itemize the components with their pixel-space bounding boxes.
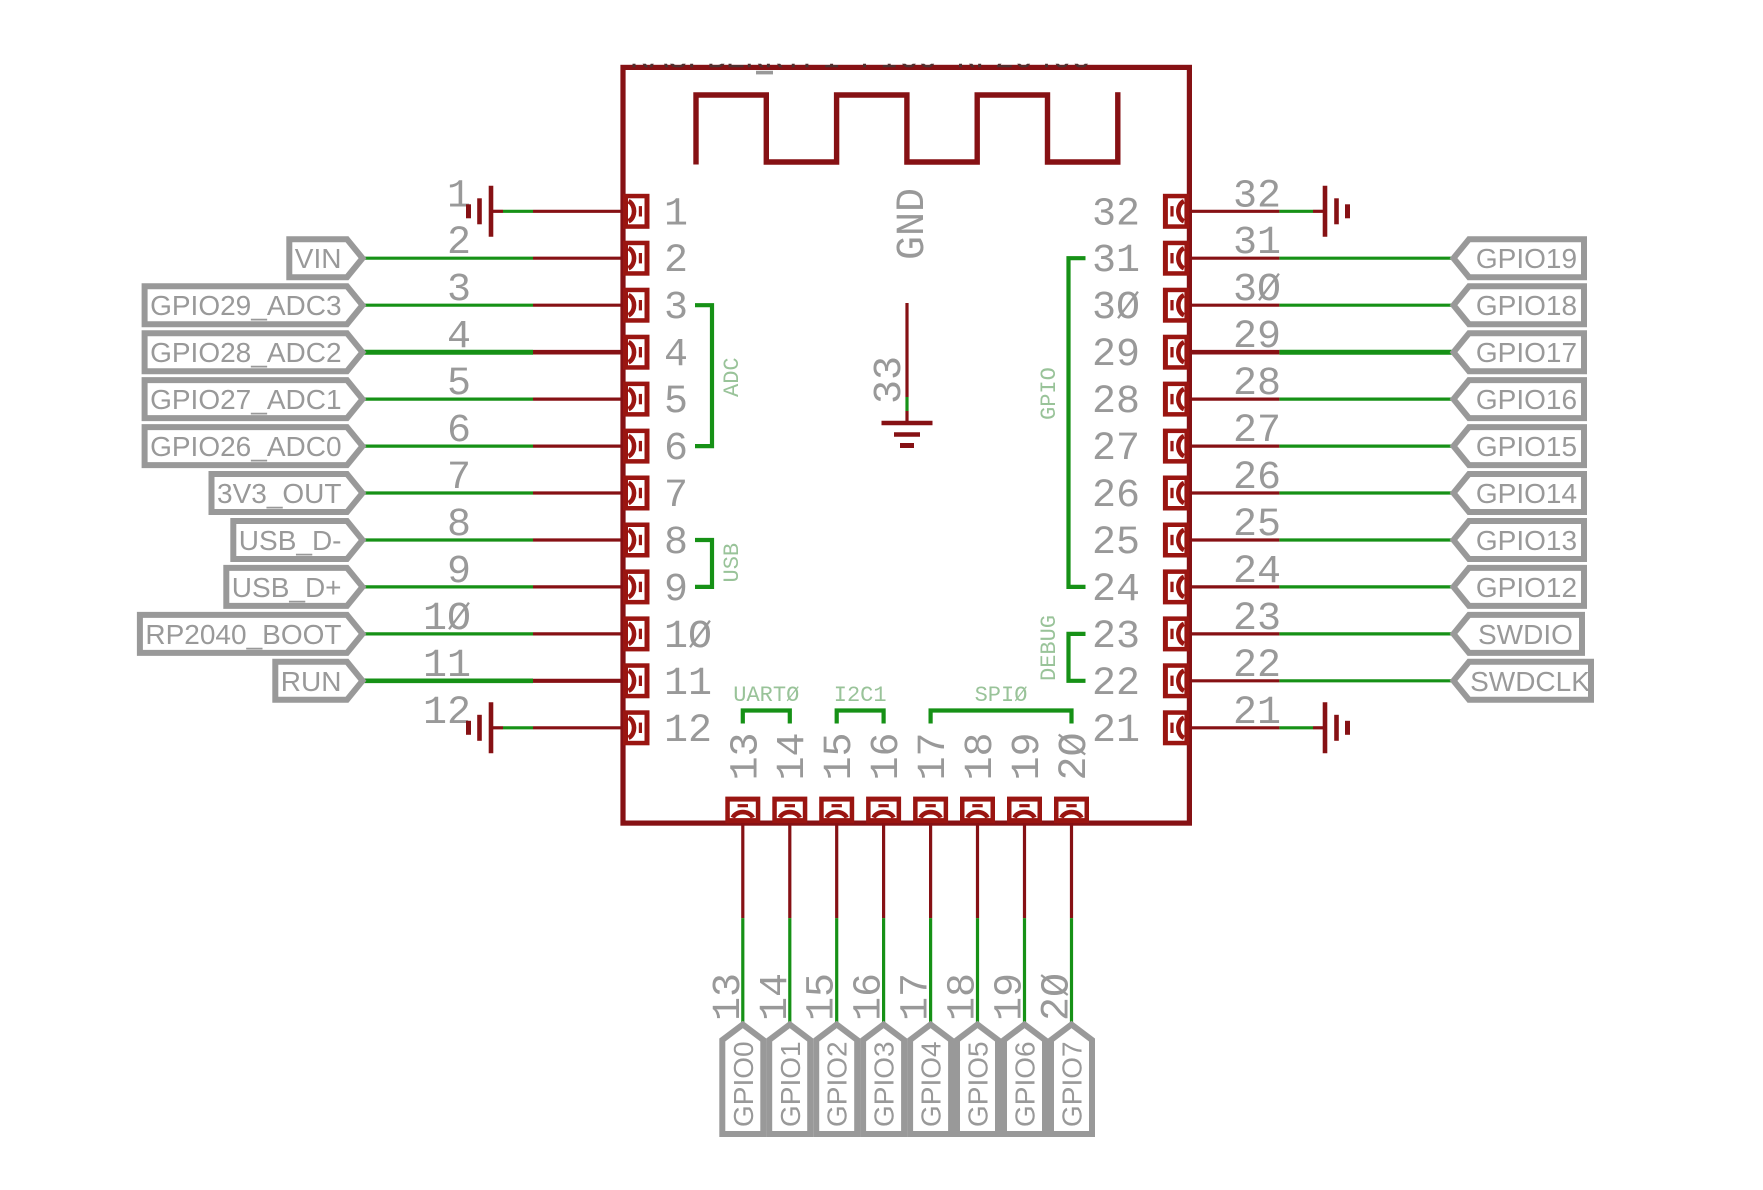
net label flag GPIO2 [816,1025,857,1135]
svg-text:23: 23 [1092,615,1140,660]
group bracket ADC (pins 3-6) [695,305,712,446]
net label flag USB_D- [233,521,362,559]
pin 17 (bottom) pad [913,797,948,824]
pin 22 stub [1189,679,1279,682]
svg-text:SWDCLK: SWDCLK [1470,666,1590,697]
pin 19 stub [1023,823,1026,918]
svg-text:DEBUG: DEBUG [1037,615,1062,681]
net wire pin 32 to GND [1279,210,1313,213]
svg-text:3Ø: 3Ø [1092,286,1140,331]
svg-text:4: 4 [664,333,688,378]
group bracket I2C1 (pins 15-16) [837,711,884,724]
net label flag RUN [275,662,362,700]
net label flag GPIO15 [1454,427,1585,465]
svg-text:26: 26 [1233,456,1281,501]
net wire GPIO5 [976,918,979,1025]
pin 30 stub [1189,304,1279,307]
svg-text:RUN: RUN [281,666,342,697]
svg-text:32: 32 [1092,192,1140,237]
svg-text:16: 16 [848,973,893,1021]
net label flag GPIO29_ADC3 [145,286,363,324]
svg-text:22: 22 [1092,662,1140,707]
svg-text:16: 16 [865,732,910,780]
svg-text:6: 6 [664,427,688,472]
ground symbol GND (pin 12) [469,702,504,753]
net wire VIN [363,257,534,260]
svg-text:RASPBERRYPI-PICO-RP2040Q: RASPBERRYPI-PICO-RP2040Q [630,41,1091,78]
pin 9 (left) pad [623,569,650,604]
svg-text:VIN: VIN [295,243,342,274]
svg-text:12: 12 [423,691,471,736]
net wire GPIO19 [1279,257,1453,260]
net label flag GPIO13 [1454,521,1585,559]
svg-text:12: 12 [664,709,712,754]
svg-text:31: 31 [1233,221,1281,266]
svg-text:GPIO16: GPIO16 [1476,384,1577,415]
antenna meander trace [696,95,1118,165]
svg-text:24: 24 [1092,568,1140,613]
svg-text:GPIO19: GPIO19 [1476,243,1577,274]
pin 5 stub [533,398,623,401]
pin 32 (right) pad [1163,194,1190,229]
pin 4 stub [533,350,623,355]
net wire GPIO2 [835,918,838,1025]
module U1 body outline [623,67,1189,823]
svg-text:3V3_OUT: 3V3_OUT [217,478,342,509]
pin 16 stub [882,823,885,918]
svg-text:3Ø: 3Ø [1233,268,1281,313]
pin 25 stub [1189,538,1279,541]
svg-text:21: 21 [1233,691,1281,736]
svg-text:GPIO28_ADC2: GPIO28_ADC2 [150,337,341,368]
group bracket UART0 (pins 13-14) [743,711,790,724]
svg-text:29: 29 [1092,333,1140,378]
net label flag GPIO27_ADC1 [145,380,363,418]
pin 21 (right) pad [1163,710,1190,745]
net wire GPIO12 [1279,585,1453,588]
net label flag GPIO26_ADC0 [145,427,363,465]
pin 10 (left) pad [623,616,650,651]
svg-text:17: 17 [895,973,940,1021]
svg-text:GPIO14: GPIO14 [1476,478,1577,509]
svg-text:25: 25 [1233,503,1281,548]
pin 19 (bottom) pad [1007,797,1042,824]
net wire USB_D- [363,538,534,541]
net label flag GPIO28_ADC2 [145,333,363,371]
svg-text:8: 8 [664,521,688,566]
net wire pin 1 to GND [503,210,533,213]
pin 23 stub [1189,632,1279,635]
net label flag GPIO1 [769,1025,810,1135]
net label flag GPIO7 [1051,1025,1092,1135]
group bracket USB (pins 8-9) [695,540,712,587]
net label flag RP2040_BOOT [140,615,363,653]
svg-text:23: 23 [1233,597,1281,642]
svg-text:21: 21 [1092,709,1140,754]
svg-text:19: 19 [989,973,1034,1021]
svg-text:GPIO3: GPIO3 [869,1041,900,1127]
net wire GPIO7 [1070,918,1073,1025]
net wire pin 21 to GND [1279,726,1313,729]
group bracket SPI0 (pins 17-20) [931,711,1072,724]
clipped part-name text at top edge [630,41,1091,78]
ground symbol GND (pin 32) [1313,186,1348,237]
svg-text:14: 14 [754,973,799,1021]
svg-text:SWDIO: SWDIO [1478,619,1573,650]
svg-text:GPIO1: GPIO1 [775,1041,806,1127]
pin 14 (bottom) pad [772,797,807,824]
pin 24 stub [1189,585,1279,588]
net label flag 3V3_OUT [212,474,363,512]
ground symbol GND (pin 33) [882,411,933,446]
net wire GPIO26_ADC0 [363,445,534,448]
pin 27 (right) pad [1163,429,1190,464]
pin 8 (left) pad [623,523,650,558]
net wire GPIO1 [788,918,791,1025]
svg-text:2Ø: 2Ø [1036,973,1081,1021]
svg-text:28: 28 [1092,380,1140,425]
svg-text:13: 13 [724,732,769,780]
svg-text:RP2040_BOOT: RP2040_BOOT [145,619,341,650]
svg-text:GPIO2: GPIO2 [822,1041,853,1127]
svg-text:GPIO: GPIO [1037,367,1062,420]
net wire RUN [363,678,534,683]
svg-text:17: 17 [912,732,957,780]
net wire GPIO3 [882,918,885,1025]
pin 27 stub [1189,445,1279,448]
pin 32 stub [1189,210,1279,213]
svg-text:GPIO7: GPIO7 [1057,1041,1088,1127]
svg-text:SPIØ: SPIØ [975,683,1028,708]
svg-text:GPIO29_ADC3: GPIO29_ADC3 [150,290,341,321]
pin 31 stub [1189,257,1279,260]
net wire GPIO4 [929,918,932,1025]
svg-text:GPIO17: GPIO17 [1476,337,1577,368]
svg-text:24: 24 [1233,550,1281,595]
svg-text:I2C1: I2C1 [834,683,887,708]
pin 11 (left) pad [623,663,650,698]
pin 12 stub [533,726,623,729]
net label flag GPIO18 [1454,286,1585,324]
pin 25 (right) pad [1163,523,1190,558]
svg-text:GPIO12: GPIO12 [1476,572,1577,603]
net wire GPIO18 [1279,304,1453,307]
net wire GPIO17 [1279,350,1453,355]
svg-text:USB_D-: USB_D- [239,525,342,556]
pin 6 stub [533,445,623,448]
pin 30 (right) pad [1163,288,1190,323]
pin 1 stub [533,210,623,213]
pin 29 stub [1189,350,1279,355]
net label flag GPIO14 [1454,474,1585,512]
pin 13 (bottom) pad [725,797,760,824]
pin 1 (left) pad [623,194,650,229]
svg-text:7: 7 [664,474,688,519]
net label flag SWDIO [1454,615,1583,653]
pin 21 stub [1189,726,1279,729]
svg-text:27: 27 [1233,409,1281,454]
svg-text:GPIO4: GPIO4 [916,1041,947,1127]
pin 26 stub [1189,491,1279,494]
pin 20 stub [1070,823,1073,918]
svg-text:11: 11 [664,662,712,707]
svg-text:25: 25 [1092,521,1140,566]
pin 11 stub [533,679,623,683]
pin 2 stub [533,257,623,260]
svg-text:GPIO6: GPIO6 [1010,1041,1041,1127]
net wire GPIO0 [741,918,744,1025]
svg-text:2Ø: 2Ø [1053,732,1098,780]
net wire GPIO28_ADC2 [363,350,534,355]
svg-text:GPIO15: GPIO15 [1476,431,1577,462]
net wire RP2040_BOOT [363,632,534,635]
svg-text:GPIO13: GPIO13 [1476,525,1577,556]
pin 22 (right) pad [1163,663,1190,698]
group bracket GPIO (pins 31-24) [1069,258,1086,587]
net label flag GPIO12 [1454,568,1585,606]
net wire GPIO29_ADC3 [363,304,534,307]
svg-text:5: 5 [664,380,688,425]
pin 6 (left) pad [623,429,650,464]
net wire GPIO14 [1279,491,1453,494]
svg-text:ADC: ADC [720,357,745,397]
net wire pin 12 to GND [503,726,533,729]
svg-text:GPIO18: GPIO18 [1476,290,1577,321]
pin 3 (left) pad [623,288,650,323]
net wire SWDIO [1279,632,1453,635]
pin 18 stub [976,823,979,918]
pin 7 stub [533,491,623,494]
pin 10 stub [533,632,623,635]
net wire SWDCLK [1279,679,1453,682]
svg-text:32: 32 [1233,174,1281,219]
pin 33 stub [905,303,908,397]
pin 3 stub [533,304,623,307]
svg-text:GND: GND [891,188,936,260]
pin 5 (left) pad [623,382,650,417]
net wire GPIO27_ADC1 [363,398,534,401]
svg-text:USB_D+: USB_D+ [232,572,342,603]
pin 17 stub [929,823,932,918]
net wire GPIO16 [1279,398,1453,401]
pin 28 (right) pad [1163,382,1190,417]
pin 8 stub [533,538,623,541]
svg-text:31: 31 [1092,239,1140,284]
ground symbol GND (pin 21) [1313,702,1348,753]
pin 13 stub [741,823,744,918]
pin 16 (bottom) pad [866,797,901,824]
svg-text:33: 33 [868,356,913,404]
net label flag GPIO5 [957,1025,998,1135]
pin 29 (right) pad [1163,335,1190,370]
pin 2 (left) pad [623,241,650,276]
net label flag USB_D+ [226,568,362,606]
ground symbol GND (pin 1) [469,186,504,237]
net label flag GPIO0 [722,1025,763,1135]
svg-text:14: 14 [771,732,816,780]
svg-text:GPIO27_ADC1: GPIO27_ADC1 [150,384,341,415]
svg-text:2: 2 [664,239,688,284]
svg-text:27: 27 [1092,427,1140,472]
pin 15 (bottom) pad [819,797,854,824]
pin 7 (left) pad [623,476,650,511]
svg-text:GPIO26_ADC0: GPIO26_ADC0 [150,431,341,462]
net label flag GPIO4 [910,1025,951,1135]
svg-text:1Ø: 1Ø [664,615,712,660]
net label flag GPIO17 [1454,333,1585,371]
net label flag GPIO3 [863,1025,904,1135]
svg-text:USB: USB [720,543,745,583]
clipped gray name stub [756,71,773,75]
svg-text:9: 9 [664,568,688,613]
net label flag GPIO16 [1454,380,1585,418]
svg-text:19: 19 [1006,732,1051,780]
pin 18 (bottom) pad [960,797,995,824]
net wire USB_D+ [363,585,534,588]
pin 20 (bottom) pad [1054,797,1089,824]
svg-text:15: 15 [801,973,846,1021]
svg-text:28: 28 [1233,362,1281,407]
pin 28 stub [1189,398,1279,401]
net label flag SWDCLK [1454,662,1592,700]
pin 31 (right) pad [1163,241,1190,276]
net label flag VIN [289,239,362,277]
net wire GPIO15 [1279,445,1453,448]
pin 4 (left) pad [623,335,650,370]
net wire GPIO6 [1023,918,1026,1025]
net wire 3V3_OUT [363,491,534,494]
svg-text:UARTØ: UARTØ [733,683,799,708]
svg-text:GPIO0: GPIO0 [728,1041,759,1127]
net label flag GPIO19 [1454,239,1585,277]
svg-text:GPIO5: GPIO5 [963,1041,994,1127]
pin 23 (right) pad [1163,616,1190,651]
pin 24 (right) pad [1163,569,1190,604]
pin 15 stub [835,823,838,918]
net label flag GPIO6 [1004,1025,1045,1135]
svg-text:29: 29 [1233,315,1281,360]
svg-text:1: 1 [664,192,688,237]
svg-text:13: 13 [707,973,752,1021]
net wire pin 33 to GND [905,397,908,411]
svg-text:26: 26 [1092,474,1140,519]
pin 14 stub [788,823,791,918]
svg-text:3: 3 [664,286,688,331]
svg-text:15: 15 [818,732,863,780]
svg-text:22: 22 [1233,644,1281,689]
pin 12 (left) pad [623,710,650,745]
svg-text:18: 18 [959,732,1004,780]
group bracket DEBUG (pins 23-22) [1069,634,1086,681]
svg-text:18: 18 [942,973,987,1021]
pin 26 (right) pad [1163,476,1190,511]
pin 9 stub [533,585,623,588]
net wire GPIO13 [1279,538,1453,541]
